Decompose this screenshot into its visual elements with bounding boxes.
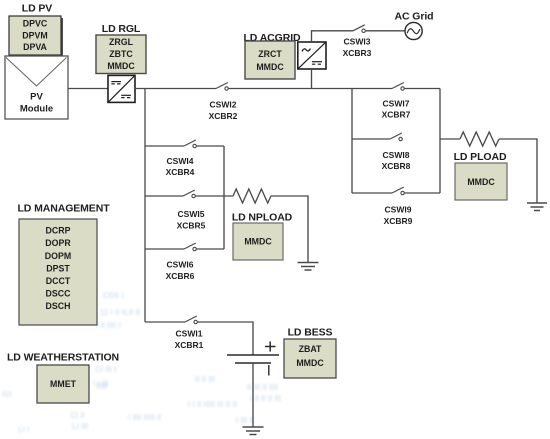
svg-text:LD PV: LD PV <box>22 3 53 15</box>
ground (battery) <box>243 427 264 435</box>
logical node box MMDC (LD NPLOAD) <box>233 223 283 260</box>
wire NPLOAD resistor to ground drop <box>271 196 308 263</box>
logical node box MMET (LD WEATHERSTATION) <box>37 365 89 403</box>
svg-text:I I II IIIII III II II: I I II IIIII III II II <box>188 400 237 409</box>
switch CSWI3 / breaker XCBR3 <box>343 25 372 58</box>
logical node box DPVC/DPVM/DPVA (LD PV) <box>9 16 63 57</box>
svg-text:I IIII IIIII II: I IIII IIIII II <box>128 413 161 422</box>
wire branch CSWI6 left <box>145 248 184 250</box>
wire branch CSWI7 left <box>352 88 392 90</box>
svg-text:LD MANAGEMENT: LD MANAGEMENT <box>17 203 110 215</box>
svg-text:CI III I: CI III I <box>95 365 116 374</box>
svg-text:DPST: DPST <box>46 264 70 274</box>
wire U2 up toward CSWI3 <box>312 31 354 42</box>
node left feeder vertical <box>144 89 146 323</box>
svg-text:XCBR5: XCBR5 <box>177 221 206 231</box>
svg-text:XCBR7: XCBR7 <box>382 110 411 120</box>
ground (PLOAD) <box>527 203 547 211</box>
svg-text:ZBAT: ZBAT <box>299 344 322 354</box>
svg-text:Module: Module <box>20 104 53 115</box>
wire branch CSWI7 right <box>404 88 440 90</box>
switch CSWI8 / breaker XCBR8 <box>382 133 411 171</box>
left block right vertical tie <box>223 146 225 249</box>
svg-text:II II III: II II III <box>195 375 215 384</box>
switch CSWI2 / breaker XCBR2 <box>209 83 238 122</box>
svg-text:ZBTC: ZBTC <box>109 49 133 59</box>
svg-text:II III II IIII: II III II IIII <box>247 383 278 392</box>
svg-text:XCBR6: XCBR6 <box>166 271 195 281</box>
battery plus label <box>265 342 276 352</box>
wire DC bus from U1 to CSWI2 <box>136 88 216 90</box>
battery BT1 positive plate <box>227 354 279 356</box>
resistor load NPLOAD <box>233 189 271 203</box>
wire CSWI1 to battery <box>197 322 253 355</box>
wire branch CSWI9 right <box>404 192 440 194</box>
wire U2 down to DC bus <box>311 69 313 89</box>
svg-text:CSWI1: CSWI1 <box>176 329 203 339</box>
svg-text:ZRCT: ZRCT <box>258 49 282 59</box>
svg-text:ZRGL: ZRGL <box>109 37 134 47</box>
svg-text:LI I: LI I <box>18 425 30 434</box>
svg-text:PV: PV <box>30 92 43 103</box>
PV module symbol <box>5 56 68 119</box>
svg-text:I II IIII I: I II IIII I <box>96 321 120 330</box>
wire branch CSWI5 left <box>145 195 183 197</box>
switch CSWI9 / breaker XCBR9 <box>384 187 413 226</box>
AC/DC converter U2 (ACGRID) <box>298 42 326 69</box>
right block left vertical bus <box>351 89 353 194</box>
svg-text:DCRP: DCRP <box>46 226 71 236</box>
svg-text:DPVA: DPVA <box>23 42 47 52</box>
svg-text:CI II: CI II <box>70 411 85 420</box>
svg-text:11 I II ILII II: 11 I II ILII II <box>100 308 140 317</box>
svg-text:DPVM: DPVM <box>22 31 47 41</box>
svg-text:LD BESS: LD BESS <box>288 327 333 339</box>
svg-text:CSWI2: CSWI2 <box>210 100 237 110</box>
wire branch CSWI8 left <box>352 138 390 140</box>
svg-text:IIIII: IIIII <box>96 382 107 391</box>
svg-text:CDII I: CDII I <box>103 291 123 300</box>
svg-text:MMDC: MMDC <box>244 237 272 247</box>
right block right vertical bus <box>439 89 441 194</box>
svg-text:MMDC: MMDC <box>296 358 324 368</box>
svg-text:MMDC: MMDC <box>467 177 495 187</box>
svg-text:CSWI3: CSWI3 <box>344 37 371 47</box>
svg-text:XCBR1: XCBR1 <box>175 340 204 350</box>
svg-text:XCBR2: XCBR2 <box>209 111 238 121</box>
svg-text:XCBR3: XCBR3 <box>343 48 372 58</box>
svg-text:LD WEATHERSTATION: LD WEATHERSTATION <box>7 352 119 364</box>
logical node box ZRCT/MMDC (LD ACGRID) <box>245 41 295 79</box>
DC/DC converter U1 (RGL) <box>108 75 135 102</box>
AC source G1 (AC Grid) <box>405 22 422 39</box>
svg-text:MMDC: MMDC <box>256 62 284 72</box>
wire branch CSWI9 left <box>352 192 392 194</box>
svg-text:AC Grid: AC Grid <box>395 11 434 23</box>
logical node box DCRP..DSCH (LD MANAGEMENT) <box>19 219 97 325</box>
wire branch CSWI4 right <box>196 145 224 147</box>
wire PV module to converter U1 <box>68 88 108 90</box>
logical node box ZBAT/MMDC (LD BESS) <box>284 339 336 378</box>
wire DC bus from CSWI2 to right block <box>228 88 352 90</box>
wire branch CSWI5 right <box>195 195 233 197</box>
svg-text:DOPR: DOPR <box>45 238 71 248</box>
battery minus label <box>268 365 270 376</box>
wire branch CSWI8 right <box>402 138 440 140</box>
svg-text:DPVC: DPVC <box>23 19 48 29</box>
svg-text:CSWI6: CSWI6 <box>167 260 194 270</box>
svg-text:CSWI5: CSWI5 <box>178 209 205 219</box>
switch CSWI1 / breaker XCBR1 <box>175 316 204 350</box>
wire branch CSWI4 left <box>145 145 184 147</box>
switch CSWI7 / breaker XCBR7 <box>382 83 411 120</box>
svg-text:DOPM: DOPM <box>45 251 71 261</box>
svg-text:CSWI8: CSWI8 <box>383 150 410 160</box>
svg-text:MMDC: MMDC <box>107 61 135 71</box>
wire battery to ground <box>252 363 254 427</box>
battery BT1 negative plate <box>235 362 271 364</box>
switch CSWI5 / breaker XCBR5 <box>177 190 206 231</box>
svg-text:CSWI4: CSWI4 <box>167 156 194 166</box>
svg-text:I III II: I III II <box>236 416 254 425</box>
svg-text:XCBR8: XCBR8 <box>382 161 411 171</box>
switch CSWI6 / breaker XCBR6 <box>166 243 197 281</box>
svg-text:LD NPLOAD: LD NPLOAD <box>232 212 293 224</box>
svg-text:XCBR4: XCBR4 <box>166 167 195 177</box>
wire branch CSWI6 right <box>196 248 224 250</box>
ground (NPLOAD) <box>298 263 319 271</box>
wire PLOAD resistor to ground drop <box>499 139 537 203</box>
svg-text:DSCC: DSCC <box>46 289 72 299</box>
svg-text:DCCT: DCCT <box>46 276 71 286</box>
svg-text:DSCH: DSCH <box>46 301 71 311</box>
logical node box MMDC (LD PLOAD) <box>455 163 507 200</box>
svg-text:MMET: MMET <box>50 379 77 389</box>
svg-text:LD PLOAD: LD PLOAD <box>454 151 507 163</box>
svg-text:I II II II III: I II II II III <box>250 394 281 403</box>
svg-text:XCBR9: XCBR9 <box>384 216 413 226</box>
svg-text:CSWI9: CSWI9 <box>385 205 412 215</box>
resistor load PLOAD <box>460 132 499 146</box>
wire branch CSWI1 left <box>145 321 185 323</box>
logical node box ZRGL/ZBTC/MMDC (LD RGL) <box>96 35 146 74</box>
switch CSWI4 / breaker XCBR4 <box>166 140 197 177</box>
svg-text:LD RGL: LD RGL <box>102 23 141 35</box>
svg-text:CSWI7: CSWI7 <box>383 99 410 109</box>
wire CSWI3 to AC grid source <box>365 30 405 32</box>
svg-text:IVI: IVI <box>2 390 12 399</box>
svg-text:LI III: LI III <box>72 422 88 431</box>
